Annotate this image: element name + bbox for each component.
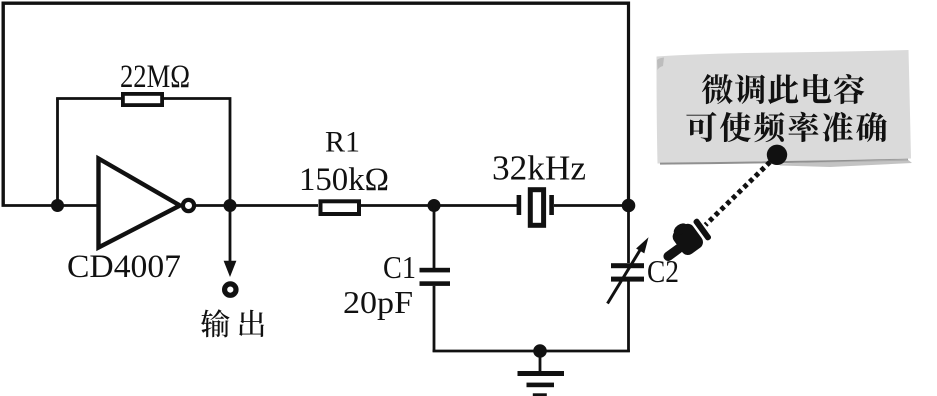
- wire: crystal to node B: [554, 204, 628, 207]
- crystal X1: right plate: [549, 195, 554, 215]
- callout text line 2: ke shi pin lv zhun que: [686, 112, 886, 142]
- capacitor C2 (variable): bottom plate: [611, 277, 644, 282]
- hand pointer icon: [653, 213, 713, 268]
- wire: bubble to output junction: [195, 204, 318, 207]
- capacitor C2 (variable): top plate: [611, 263, 644, 268]
- svg-text:32kHz: 32kHz: [492, 149, 586, 188]
- ground symbol: stub and three bars: [518, 351, 565, 396]
- wire: C1 lower lead: [433, 286, 436, 352]
- arrowhead: output arrow: [224, 261, 237, 277]
- svg-text:150kΩ: 150kΩ: [299, 162, 389, 198]
- svg-text:C1: C1: [383, 249, 416, 285]
- wire: top loop conductor: [2, 2, 629, 5]
- resistor 22M ohm (feedback): [123, 94, 162, 105]
- dotted leader line: [706, 162, 771, 225]
- capacitor C2: trimmer arrow: [608, 237, 649, 303]
- wire: input horizontal from left border to inverter: [2, 204, 99, 207]
- resistor R1 box: [321, 201, 360, 214]
- svg-text:20pF: 20pF: [343, 284, 413, 320]
- wire: R1 to node A: [361, 204, 517, 207]
- terminal: output ring: [225, 284, 236, 295]
- wire: C1 upper lead: [433, 206, 436, 269]
- svg-text:R1: R1: [325, 126, 360, 159]
- callout: gray note box: [657, 50, 913, 167]
- wire: feedback left vertical: [56, 99, 59, 206]
- capacitor C1: bottom plate: [420, 281, 451, 286]
- callout text line 1: wei tiao ci dian rong: [702, 74, 864, 104]
- wire: right loop vertical (top wire down to crystal node B): [627, 2, 630, 206]
- wire: output branch vertical: [229, 206, 232, 264]
- node: output junction: [224, 199, 237, 212]
- capacitor C1: top plate: [420, 268, 451, 273]
- crystal X1 (32kHz): left plate: [517, 195, 522, 215]
- svg-text:C2: C2: [647, 253, 679, 289]
- wire: bottom conductor: [433, 350, 630, 353]
- svg-text:CD4007: CD4007: [67, 249, 181, 285]
- label: shu-chu (output) CJK glyphs: [201, 309, 264, 337]
- inverter output bubble: [183, 200, 194, 211]
- svg-text:22MΩ: 22MΩ: [120, 59, 190, 95]
- wire: feedback top, right segment: [164, 99, 230, 206]
- wire: C2 upper lead: [627, 206, 630, 264]
- node B: crystal/C2 junction: [622, 199, 636, 213]
- node: ground junction: [533, 344, 547, 358]
- wire: feedback top, left segment: [56, 97, 122, 100]
- wire: left border vertical conductor: [2, 2, 5, 207]
- callout anchor dot: [767, 145, 787, 165]
- node: inverter input junction: [51, 199, 64, 212]
- inverter U1 triangle (CD4007 gate): [99, 159, 181, 248]
- wire: C2 lower lead: [627, 281, 630, 352]
- crystal X1: body rectangle: [530, 190, 543, 226]
- node A: R1/C1/crystal junction: [428, 199, 441, 212]
